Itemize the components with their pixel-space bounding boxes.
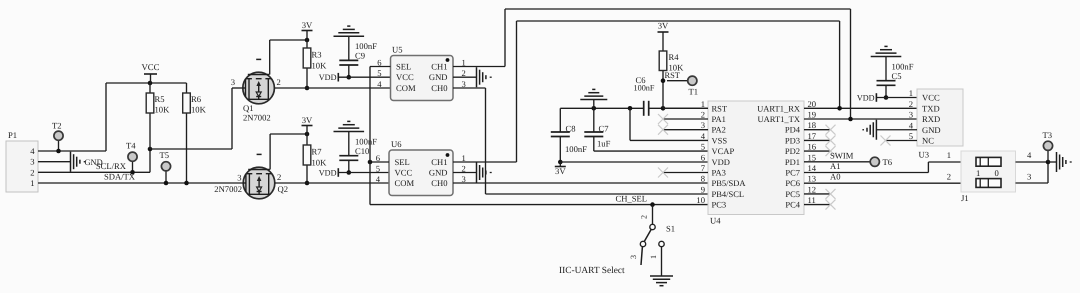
- svg-text:RXD: RXD: [922, 114, 940, 124]
- svg-text:2: 2: [701, 110, 705, 120]
- svg-text:COM: COM: [395, 178, 415, 188]
- svg-text:T6: T6: [883, 157, 893, 167]
- svg-text:16: 16: [808, 142, 817, 152]
- svg-text:CH1: CH1: [431, 62, 447, 72]
- svg-text:2: 2: [30, 167, 34, 177]
- svg-text:SWIM: SWIM: [830, 150, 854, 160]
- svg-text:4: 4: [701, 131, 706, 141]
- svg-text:T2: T2: [52, 121, 62, 131]
- svg-text:11: 11: [808, 195, 816, 205]
- svg-text:3V: 3V: [555, 166, 566, 176]
- svg-text:5: 5: [909, 131, 913, 141]
- svg-text:SEL: SEL: [396, 62, 411, 72]
- svg-text:PA2: PA2: [712, 125, 726, 135]
- svg-text:20: 20: [808, 99, 817, 109]
- svg-text:3: 3: [30, 157, 34, 167]
- svg-text:SCL/RX: SCL/RX: [96, 161, 127, 171]
- svg-text:PD3: PD3: [785, 135, 800, 145]
- svg-text:2: 2: [909, 99, 913, 109]
- svg-text:RST: RST: [712, 103, 728, 113]
- svg-text:GND: GND: [429, 168, 448, 178]
- svg-text:2: 2: [462, 68, 466, 78]
- svg-text:T4: T4: [126, 141, 136, 151]
- svg-text:5: 5: [376, 163, 380, 173]
- svg-text:C7: C7: [599, 124, 610, 134]
- svg-text:10K: 10K: [191, 105, 207, 115]
- svg-text:1: 1: [701, 99, 705, 109]
- svg-text:3: 3: [231, 77, 235, 87]
- svg-text:3V: 3V: [302, 20, 313, 30]
- svg-text:PD4: PD4: [785, 125, 801, 135]
- svg-text:5: 5: [377, 68, 381, 78]
- svg-text:T1: T1: [689, 87, 699, 97]
- svg-text:4: 4: [376, 174, 381, 184]
- svg-text:VCAP: VCAP: [712, 146, 735, 156]
- svg-text:PC6: PC6: [785, 178, 800, 188]
- svg-text:3: 3: [629, 255, 638, 259]
- svg-text:PC3: PC3: [712, 200, 727, 210]
- svg-text:VCC: VCC: [396, 72, 414, 82]
- svg-text:PC4: PC4: [785, 200, 800, 210]
- svg-text:GND: GND: [922, 125, 941, 135]
- svg-text:4: 4: [1027, 150, 1032, 160]
- svg-text:10K: 10K: [312, 61, 328, 71]
- svg-text:C9: C9: [355, 51, 365, 61]
- svg-text:100nF: 100nF: [565, 144, 587, 154]
- svg-text:14: 14: [808, 163, 817, 173]
- svg-text:T5: T5: [160, 150, 170, 160]
- svg-text:PD2: PD2: [785, 146, 800, 156]
- svg-text:U3: U3: [919, 150, 930, 160]
- svg-text:4: 4: [909, 120, 914, 130]
- svg-text:IIC-UART Select: IIC-UART Select: [559, 266, 625, 276]
- svg-text:6: 6: [701, 152, 706, 162]
- svg-text:J1: J1: [961, 193, 969, 203]
- svg-text:CH0: CH0: [431, 83, 447, 93]
- svg-text:12: 12: [808, 184, 817, 194]
- svg-text:RST: RST: [665, 71, 680, 80]
- svg-text:U4: U4: [710, 216, 721, 226]
- svg-text:15: 15: [808, 152, 817, 162]
- svg-text:R4: R4: [669, 52, 680, 62]
- svg-text:R6: R6: [191, 94, 202, 104]
- svg-text:PC5: PC5: [785, 189, 800, 199]
- svg-text:PB5/SDA: PB5/SDA: [712, 178, 747, 188]
- svg-text:3: 3: [462, 174, 466, 184]
- svg-text:1: 1: [462, 153, 466, 163]
- svg-text:4: 4: [377, 79, 382, 89]
- svg-text:PA3: PA3: [712, 168, 726, 178]
- svg-text:6: 6: [376, 153, 381, 163]
- svg-text:SEL: SEL: [395, 157, 410, 167]
- svg-text:3V: 3V: [658, 21, 669, 31]
- svg-text:R5: R5: [155, 94, 165, 104]
- svg-text:100nF: 100nF: [634, 84, 655, 93]
- svg-text:4: 4: [30, 146, 35, 156]
- svg-text:CH_SEL: CH_SEL: [615, 194, 647, 204]
- svg-text:GND: GND: [429, 72, 448, 82]
- svg-text:0: 0: [995, 168, 999, 178]
- svg-text:A0: A0: [830, 172, 841, 182]
- svg-text:T3: T3: [1043, 130, 1053, 140]
- svg-text:VDD: VDD: [319, 73, 337, 82]
- svg-text:C8: C8: [566, 124, 576, 134]
- svg-text:S1: S1: [666, 224, 675, 234]
- svg-text:19: 19: [808, 110, 817, 120]
- svg-text:1: 1: [909, 88, 913, 98]
- svg-text:3: 3: [909, 110, 913, 120]
- svg-text:3V: 3V: [302, 115, 313, 125]
- svg-text:5: 5: [701, 142, 705, 152]
- svg-text:2: 2: [640, 215, 649, 219]
- svg-text:PA1: PA1: [712, 114, 726, 124]
- svg-text:VCC: VCC: [922, 93, 940, 103]
- svg-text:NC: NC: [922, 136, 934, 146]
- svg-text:Q1: Q1: [243, 103, 254, 113]
- svg-text:SDA/TX: SDA/TX: [104, 171, 136, 181]
- svg-text:3: 3: [701, 120, 705, 130]
- svg-text:UART1_RX: UART1_RX: [757, 103, 800, 113]
- svg-text:2N7002: 2N7002: [243, 113, 271, 123]
- svg-text:VSS: VSS: [712, 135, 728, 145]
- svg-text:TXD: TXD: [922, 103, 940, 113]
- svg-text:1: 1: [462, 57, 466, 67]
- svg-text:9: 9: [701, 184, 705, 194]
- svg-text:VDD: VDD: [712, 157, 730, 167]
- svg-text:17: 17: [808, 131, 817, 141]
- svg-text:C10: C10: [355, 146, 369, 156]
- svg-text:VCC: VCC: [141, 62, 159, 72]
- svg-text:P1: P1: [8, 130, 17, 140]
- svg-text:R7: R7: [312, 147, 323, 157]
- svg-text:PB4/SCL: PB4/SCL: [712, 189, 745, 199]
- svg-text:VCC: VCC: [395, 168, 413, 178]
- svg-text:C5: C5: [892, 71, 902, 81]
- svg-text:PC7: PC7: [785, 168, 800, 178]
- svg-text:6: 6: [377, 57, 382, 67]
- svg-text:2: 2: [462, 163, 466, 173]
- svg-text:2: 2: [277, 172, 281, 182]
- svg-text:COM: COM: [396, 83, 416, 93]
- svg-text:R3: R3: [312, 50, 322, 60]
- svg-text:U5: U5: [392, 45, 403, 55]
- svg-text:CH1: CH1: [431, 157, 447, 167]
- svg-text:2N7002: 2N7002: [214, 184, 242, 194]
- svg-text:A1: A1: [830, 161, 841, 171]
- svg-text:1uF: 1uF: [597, 139, 611, 149]
- svg-text:PD1: PD1: [785, 157, 800, 167]
- svg-text:Q2: Q2: [278, 184, 289, 194]
- svg-text:CH0: CH0: [431, 178, 447, 188]
- svg-text:10K: 10K: [155, 105, 171, 115]
- svg-text:3: 3: [1027, 172, 1031, 182]
- svg-text:2: 2: [947, 172, 951, 182]
- svg-text:2: 2: [277, 77, 281, 87]
- svg-text:10: 10: [696, 195, 705, 205]
- svg-text:U6: U6: [391, 139, 402, 149]
- svg-text:13: 13: [808, 174, 817, 184]
- svg-text:10K: 10K: [312, 158, 328, 168]
- svg-text:1: 1: [649, 255, 658, 259]
- svg-text:8: 8: [701, 174, 705, 184]
- svg-text:3: 3: [237, 173, 241, 183]
- svg-text:VDD: VDD: [319, 169, 337, 178]
- svg-text:VDD: VDD: [857, 94, 875, 103]
- svg-text:3: 3: [462, 79, 466, 89]
- svg-text:1: 1: [30, 178, 34, 188]
- svg-text:7: 7: [701, 163, 706, 173]
- svg-text:1: 1: [976, 168, 980, 178]
- svg-text:1: 1: [947, 150, 951, 160]
- svg-text:UART1_TX: UART1_TX: [758, 114, 800, 124]
- svg-text:18: 18: [808, 120, 817, 130]
